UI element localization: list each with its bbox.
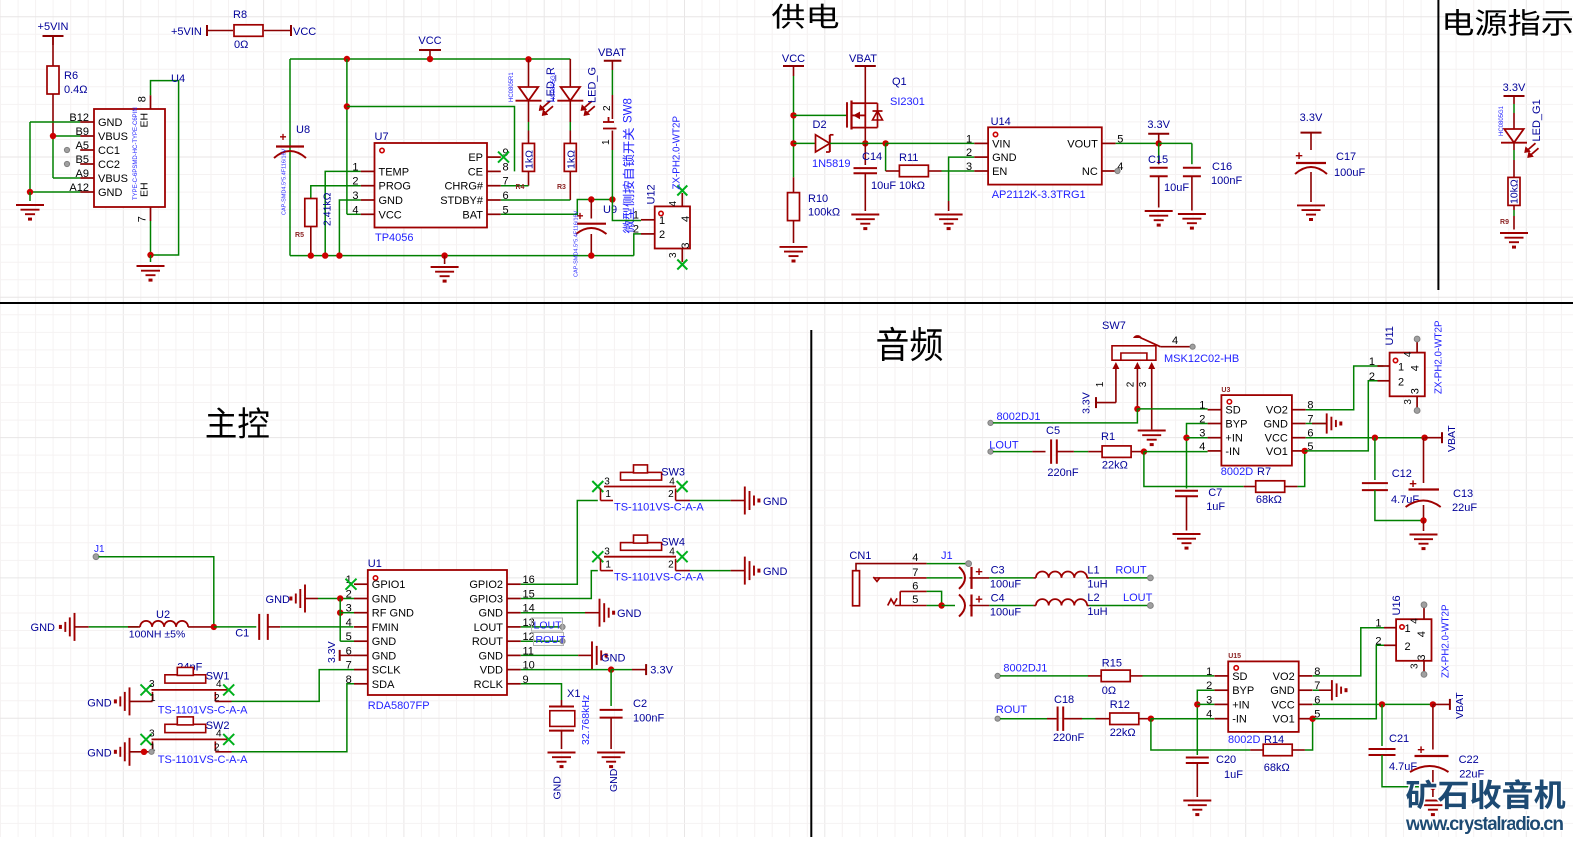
svg-text:+: + bbox=[975, 564, 983, 579]
svg-text:U12: U12 bbox=[646, 184, 658, 204]
svg-text:3: 3 bbox=[1410, 663, 1421, 669]
svg-text:3: 3 bbox=[1403, 399, 1414, 405]
svg-text:HC0805G1: HC0805G1 bbox=[551, 71, 557, 102]
svg-text:HC0805R1: HC0805R1 bbox=[509, 72, 515, 102]
svg-text:4: 4 bbox=[346, 617, 352, 629]
svg-text:C13: C13 bbox=[1453, 488, 1473, 500]
svg-text:GND: GND bbox=[31, 622, 56, 634]
svg-text:1: 1 bbox=[601, 139, 612, 145]
svg-text:22uF: 22uF bbox=[1452, 502, 1477, 514]
svg-text:C22: C22 bbox=[1459, 754, 1479, 766]
svg-text:B5: B5 bbox=[76, 154, 89, 166]
svg-text:1: 1 bbox=[1375, 618, 1381, 630]
svg-text:4: 4 bbox=[1206, 709, 1212, 721]
svg-text:EN: EN bbox=[992, 166, 1007, 178]
svg-text:ROUT: ROUT bbox=[996, 704, 1027, 716]
svg-text:R3: R3 bbox=[557, 184, 566, 191]
svg-text:GND: GND bbox=[87, 698, 112, 710]
svg-text:3: 3 bbox=[1416, 654, 1428, 660]
svg-text:4: 4 bbox=[1403, 351, 1414, 357]
svg-text:2: 2 bbox=[602, 105, 613, 111]
svg-text:3: 3 bbox=[604, 547, 610, 558]
svg-text:GND: GND bbox=[372, 594, 397, 606]
svg-text:VBUS: VBUS bbox=[98, 131, 128, 143]
svg-text:SW4: SW4 bbox=[661, 537, 685, 549]
svg-text:MSK12C02-HB: MSK12C02-HB bbox=[1164, 353, 1239, 365]
svg-text:+: + bbox=[279, 130, 286, 144]
svg-text:GND: GND bbox=[601, 653, 626, 665]
svg-text:2: 2 bbox=[1375, 635, 1381, 647]
svg-text:TEMP: TEMP bbox=[379, 166, 410, 178]
svg-text:FMIN: FMIN bbox=[372, 622, 399, 634]
svg-text:ROUT: ROUT bbox=[472, 636, 503, 648]
svg-text:RF GND: RF GND bbox=[372, 608, 414, 620]
svg-text:LOUT: LOUT bbox=[534, 620, 563, 632]
svg-text:VCC: VCC bbox=[379, 209, 402, 221]
svg-text:68kΩ: 68kΩ bbox=[1256, 494, 1282, 506]
svg-text:GND: GND bbox=[98, 187, 123, 199]
svg-text:C16: C16 bbox=[1212, 161, 1232, 173]
svg-text:R5: R5 bbox=[295, 232, 304, 239]
svg-text:1: 1 bbox=[659, 215, 665, 227]
svg-text:4.7uF: 4.7uF bbox=[1391, 494, 1419, 506]
svg-text:1: 1 bbox=[1199, 400, 1205, 412]
svg-text:TS-1101VS-C-A-A: TS-1101VS-C-A-A bbox=[158, 704, 248, 716]
svg-text:220nF: 220nF bbox=[1047, 467, 1078, 479]
svg-text:ZX-PH2.0-WT2P: ZX-PH2.0-WT2P bbox=[1434, 320, 1445, 394]
svg-text:3: 3 bbox=[604, 476, 610, 487]
svg-text:1: 1 bbox=[1369, 356, 1375, 368]
svg-text:D2: D2 bbox=[813, 119, 827, 131]
svg-text:1: 1 bbox=[605, 559, 611, 570]
svg-text:3.3V: 3.3V bbox=[1081, 392, 1093, 414]
svg-text:GND: GND bbox=[608, 768, 620, 792]
svg-text:CE: CE bbox=[468, 166, 483, 178]
svg-text:R15: R15 bbox=[1102, 658, 1122, 670]
svg-text:VBAT: VBAT bbox=[1446, 425, 1458, 452]
svg-text:VDD: VDD bbox=[480, 665, 503, 677]
svg-text:2: 2 bbox=[659, 229, 665, 241]
svg-text:3.3V: 3.3V bbox=[1147, 119, 1170, 131]
svg-text:ZX-PH2.0-WT2P: ZX-PH2.0-WT2P bbox=[1441, 604, 1452, 678]
svg-text:GND: GND bbox=[552, 776, 564, 800]
svg-text:+: + bbox=[975, 592, 983, 607]
svg-text:1uF: 1uF bbox=[1206, 501, 1225, 513]
svg-text:R4: R4 bbox=[516, 184, 525, 191]
svg-text:BAT: BAT bbox=[462, 209, 483, 221]
svg-text:22kΩ: 22kΩ bbox=[1110, 727, 1136, 739]
svg-text:2: 2 bbox=[1369, 371, 1375, 383]
svg-text:3: 3 bbox=[966, 161, 972, 173]
svg-text:ZX-PH2.0-WT2P: ZX-PH2.0-WT2P bbox=[672, 116, 683, 190]
svg-text:VIN: VIN bbox=[992, 138, 1010, 150]
svg-text:LED_G: LED_G bbox=[587, 67, 599, 103]
svg-text:3: 3 bbox=[680, 242, 692, 248]
svg-text:100nF: 100nF bbox=[1211, 175, 1242, 187]
svg-text:U8: U8 bbox=[296, 124, 310, 136]
svg-text:VO2: VO2 bbox=[1273, 671, 1295, 683]
svg-text:C17: C17 bbox=[1336, 151, 1356, 163]
svg-text:+: + bbox=[1295, 148, 1303, 163]
svg-text:C2: C2 bbox=[633, 698, 647, 710]
svg-text:TYPE-C-6PSMD-HC-TYPE-C6PIN: TYPE-C-6PSMD-HC-TYPE-C6PIN bbox=[133, 107, 139, 200]
svg-text:X1: X1 bbox=[567, 688, 580, 700]
svg-text:SW2: SW2 bbox=[206, 720, 230, 732]
svg-text:8002DJ1: 8002DJ1 bbox=[997, 411, 1041, 423]
svg-text:1: 1 bbox=[1405, 623, 1411, 635]
svg-text:BYP: BYP bbox=[1225, 419, 1247, 431]
svg-text:VOUT: VOUT bbox=[1067, 138, 1098, 150]
svg-text:GND: GND bbox=[87, 748, 112, 760]
svg-text:+: + bbox=[1417, 742, 1425, 757]
svg-text:TP4056: TP4056 bbox=[375, 232, 414, 244]
svg-text:C3: C3 bbox=[991, 565, 1005, 577]
svg-text:VO1: VO1 bbox=[1266, 446, 1288, 458]
svg-text:C5: C5 bbox=[1046, 425, 1060, 437]
svg-text:3.3V: 3.3V bbox=[326, 641, 338, 663]
svg-text:CN1: CN1 bbox=[849, 550, 871, 562]
svg-text:C7: C7 bbox=[1208, 487, 1222, 499]
svg-text:EP: EP bbox=[468, 152, 483, 164]
svg-text:GND: GND bbox=[1263, 419, 1288, 431]
svg-text:TS-1101VS-C-A-A: TS-1101VS-C-A-A bbox=[614, 502, 704, 514]
svg-text:U16: U16 bbox=[1391, 595, 1403, 615]
svg-text:VCC: VCC bbox=[1271, 699, 1294, 711]
svg-text:CC2: CC2 bbox=[98, 159, 120, 171]
svg-text:BYP: BYP bbox=[1232, 685, 1254, 697]
svg-text:L2: L2 bbox=[1087, 592, 1099, 604]
svg-text:CC1: CC1 bbox=[98, 145, 120, 157]
svg-text:R6: R6 bbox=[64, 70, 78, 82]
svg-text:1kΩ: 1kΩ bbox=[524, 150, 536, 169]
svg-text:3.3V: 3.3V bbox=[1503, 82, 1526, 94]
svg-text:R8: R8 bbox=[233, 9, 247, 21]
svg-text:1uH: 1uH bbox=[1087, 606, 1107, 618]
svg-text:SD: SD bbox=[1225, 405, 1240, 417]
svg-text:3: 3 bbox=[149, 728, 155, 739]
svg-text:VO1: VO1 bbox=[1273, 714, 1295, 726]
svg-text:GPIO1: GPIO1 bbox=[372, 579, 406, 591]
svg-text:2: 2 bbox=[214, 693, 220, 704]
svg-text:1: 1 bbox=[1398, 362, 1404, 374]
svg-text:3.3V: 3.3V bbox=[1300, 112, 1323, 124]
svg-text:CAP-SMD4.5*5.4F116/16V: CAP-SMD4.5*5.4F116/16V bbox=[282, 148, 288, 215]
svg-text:VBAT: VBAT bbox=[1454, 692, 1466, 719]
svg-text:GND: GND bbox=[479, 608, 504, 620]
svg-text:GPIO2: GPIO2 bbox=[469, 579, 503, 591]
svg-text:100uF: 100uF bbox=[990, 607, 1021, 619]
svg-text:SW8: SW8 bbox=[623, 98, 635, 123]
svg-text:U3: U3 bbox=[1221, 387, 1230, 394]
svg-text:32.768kHz: 32.768kHz bbox=[580, 695, 592, 745]
svg-text:3.3V: 3.3V bbox=[650, 665, 673, 677]
svg-text:U9: U9 bbox=[603, 204, 617, 216]
svg-text:R1: R1 bbox=[1101, 431, 1115, 443]
svg-text:SDA: SDA bbox=[372, 679, 395, 691]
svg-text:U15: U15 bbox=[1228, 653, 1241, 660]
svg-text:100uF: 100uF bbox=[990, 579, 1021, 591]
svg-text:U11: U11 bbox=[1384, 326, 1396, 345]
svg-text:8: 8 bbox=[137, 96, 149, 102]
svg-text:100nF: 100nF bbox=[633, 713, 664, 725]
svg-text:AP2112K-3.3TRG1: AP2112K-3.3TRG1 bbox=[992, 189, 1086, 201]
svg-text:1: 1 bbox=[633, 210, 639, 222]
svg-text:0.4Ω: 0.4Ω bbox=[64, 84, 88, 96]
svg-text:-IN: -IN bbox=[1232, 714, 1247, 726]
svg-text:5: 5 bbox=[912, 594, 918, 606]
svg-text:1uF: 1uF bbox=[1224, 769, 1243, 781]
svg-text:SD: SD bbox=[1232, 671, 1247, 683]
svg-text:CHRG#: CHRG# bbox=[444, 181, 483, 193]
svg-text:VCC: VCC bbox=[418, 35, 441, 47]
svg-text:VCC: VCC bbox=[293, 26, 316, 38]
svg-text:GND: GND bbox=[763, 496, 788, 508]
svg-text:VBAT: VBAT bbox=[849, 53, 877, 65]
svg-text:GND: GND bbox=[479, 650, 504, 662]
svg-text:2: 2 bbox=[966, 147, 972, 159]
svg-text:2: 2 bbox=[668, 559, 674, 570]
svg-text:GND: GND bbox=[266, 594, 291, 606]
svg-text:VBAT: VBAT bbox=[598, 47, 626, 59]
svg-text:R12: R12 bbox=[1110, 699, 1130, 711]
svg-text:+5VIN: +5VIN bbox=[38, 21, 69, 33]
svg-text:4: 4 bbox=[1199, 441, 1205, 453]
svg-text:10kΩ: 10kΩ bbox=[899, 180, 925, 192]
svg-text:LOUT: LOUT bbox=[989, 440, 1019, 452]
svg-text:U2: U2 bbox=[156, 609, 170, 621]
svg-text:1N5819: 1N5819 bbox=[812, 158, 851, 170]
svg-text:C20: C20 bbox=[1216, 754, 1236, 766]
svg-text:EH: EH bbox=[138, 182, 150, 197]
svg-text:68kΩ: 68kΩ bbox=[1264, 762, 1290, 774]
svg-text:A5: A5 bbox=[76, 140, 89, 152]
svg-text:8002D: 8002D bbox=[1228, 734, 1260, 746]
svg-text:HC0805G1: HC0805G1 bbox=[1499, 105, 1505, 136]
svg-text:SW3: SW3 bbox=[661, 467, 685, 479]
svg-text:LOUT: LOUT bbox=[1123, 592, 1153, 604]
svg-text:4: 4 bbox=[1410, 365, 1422, 371]
svg-text:4: 4 bbox=[1416, 631, 1428, 637]
svg-text:+IN: +IN bbox=[1225, 433, 1242, 445]
svg-text:SCLK: SCLK bbox=[372, 665, 401, 677]
svg-text:VCC: VCC bbox=[1265, 433, 1288, 445]
svg-text:2.41kΩ: 2.41kΩ bbox=[322, 192, 334, 226]
svg-text:8002D: 8002D bbox=[1221, 466, 1253, 478]
svg-text:4: 4 bbox=[668, 201, 679, 207]
svg-text:SI2301: SI2301 bbox=[890, 96, 925, 108]
svg-text:1kΩ: 1kΩ bbox=[566, 150, 578, 169]
svg-text:LED_G1: LED_G1 bbox=[1531, 99, 1543, 141]
svg-text:3: 3 bbox=[149, 679, 155, 690]
svg-text:Q1: Q1 bbox=[892, 76, 907, 88]
svg-text:C4: C4 bbox=[991, 593, 1005, 605]
svg-text:www.crystalradio.cn: www.crystalradio.cn bbox=[1405, 814, 1564, 835]
svg-text:RDA5807FP: RDA5807FP bbox=[368, 700, 430, 712]
svg-text:-IN: -IN bbox=[1225, 446, 1240, 458]
svg-text:TS-1101VS-C-A-A: TS-1101VS-C-A-A bbox=[614, 572, 704, 584]
svg-text:VCC: VCC bbox=[782, 53, 805, 65]
svg-text:0Ω: 0Ω bbox=[1102, 685, 1116, 697]
svg-text:RCLK: RCLK bbox=[474, 679, 504, 691]
svg-text:3: 3 bbox=[668, 252, 679, 258]
svg-text:4: 4 bbox=[1172, 335, 1178, 347]
svg-text:6: 6 bbox=[912, 581, 918, 593]
svg-text:VO2: VO2 bbox=[1266, 405, 1288, 417]
svg-text:J1: J1 bbox=[941, 550, 953, 562]
svg-text:GND: GND bbox=[763, 566, 788, 578]
svg-text:4: 4 bbox=[912, 552, 918, 564]
svg-text:220nF: 220nF bbox=[1053, 732, 1084, 744]
svg-text:GPIO3: GPIO3 bbox=[469, 594, 503, 606]
svg-text:U1: U1 bbox=[368, 558, 382, 570]
svg-text:10uF: 10uF bbox=[871, 180, 896, 192]
svg-text:7: 7 bbox=[137, 216, 149, 222]
svg-text:8: 8 bbox=[503, 161, 509, 173]
svg-text:ROUT: ROUT bbox=[1115, 565, 1146, 577]
svg-text:8002DJ1: 8002DJ1 bbox=[1003, 663, 1047, 675]
svg-text:100NH ±5%: 100NH ±5% bbox=[129, 629, 186, 641]
svg-text:1uH: 1uH bbox=[1087, 579, 1107, 591]
svg-text:CAP-SMD4.5*5.4F116/16V: CAP-SMD4.5*5.4F116/16V bbox=[574, 210, 580, 277]
svg-text:PROG: PROG bbox=[379, 181, 411, 193]
svg-text:EH: EH bbox=[138, 113, 150, 128]
svg-text:C18: C18 bbox=[1054, 694, 1074, 706]
svg-text:STDBY#: STDBY# bbox=[440, 195, 484, 207]
svg-text:GND: GND bbox=[372, 650, 397, 662]
svg-text:U14: U14 bbox=[991, 116, 1011, 128]
svg-text:GND: GND bbox=[992, 152, 1017, 164]
svg-text:NC: NC bbox=[1082, 166, 1098, 178]
svg-text:1: 1 bbox=[966, 133, 972, 145]
svg-text:+IN: +IN bbox=[1232, 699, 1249, 711]
svg-text:4: 4 bbox=[1410, 618, 1421, 624]
svg-text:100uF: 100uF bbox=[1334, 167, 1365, 179]
svg-text:ROUT: ROUT bbox=[536, 634, 566, 646]
svg-text:0Ω: 0Ω bbox=[234, 39, 248, 51]
svg-text:2: 2 bbox=[1126, 381, 1137, 387]
svg-text:VBUS: VBUS bbox=[98, 173, 128, 185]
svg-text:GND: GND bbox=[372, 636, 397, 648]
svg-text:C1: C1 bbox=[235, 628, 249, 640]
svg-text:7: 7 bbox=[912, 567, 918, 579]
svg-text:10kΩ: 10kΩ bbox=[1509, 179, 1521, 204]
svg-text:GND: GND bbox=[98, 117, 123, 129]
svg-text:10uF: 10uF bbox=[1164, 182, 1189, 194]
svg-text:GND: GND bbox=[617, 608, 642, 620]
svg-text:1: 1 bbox=[1206, 666, 1212, 678]
svg-text:GND: GND bbox=[379, 195, 404, 207]
svg-text:2: 2 bbox=[668, 489, 674, 500]
svg-text:GND: GND bbox=[1270, 685, 1295, 697]
svg-text:R9: R9 bbox=[1500, 219, 1509, 226]
svg-text:C21: C21 bbox=[1389, 733, 1409, 745]
svg-text:C15: C15 bbox=[1148, 154, 1168, 166]
svg-text:R11: R11 bbox=[899, 152, 918, 164]
svg-text:4: 4 bbox=[680, 216, 692, 222]
svg-text:3: 3 bbox=[1410, 388, 1422, 394]
svg-text:2: 2 bbox=[1398, 376, 1404, 388]
svg-text:LOUT: LOUT bbox=[474, 622, 504, 634]
svg-text:C14: C14 bbox=[862, 151, 882, 163]
svg-text:1: 1 bbox=[605, 489, 611, 500]
svg-text:U7: U7 bbox=[375, 131, 389, 143]
svg-text:R10: R10 bbox=[808, 193, 828, 205]
svg-text:TS-1101VS-C-A-A: TS-1101VS-C-A-A bbox=[158, 754, 248, 766]
svg-text:R7: R7 bbox=[1257, 466, 1271, 478]
svg-text:SW1: SW1 bbox=[206, 670, 230, 682]
svg-text:SW7: SW7 bbox=[1102, 320, 1126, 332]
svg-text:+5VIN: +5VIN bbox=[171, 26, 202, 38]
svg-text:L1: L1 bbox=[1087, 565, 1099, 577]
svg-text:22kΩ: 22kΩ bbox=[1102, 460, 1128, 472]
svg-text:3: 3 bbox=[1138, 381, 1149, 387]
svg-text:J1: J1 bbox=[94, 544, 105, 555]
svg-text:2: 2 bbox=[1405, 641, 1411, 653]
svg-text:100kΩ: 100kΩ bbox=[808, 207, 840, 219]
svg-text:U4: U4 bbox=[171, 73, 185, 85]
svg-text:1: 1 bbox=[150, 693, 156, 704]
svg-text:1: 1 bbox=[1095, 381, 1106, 387]
